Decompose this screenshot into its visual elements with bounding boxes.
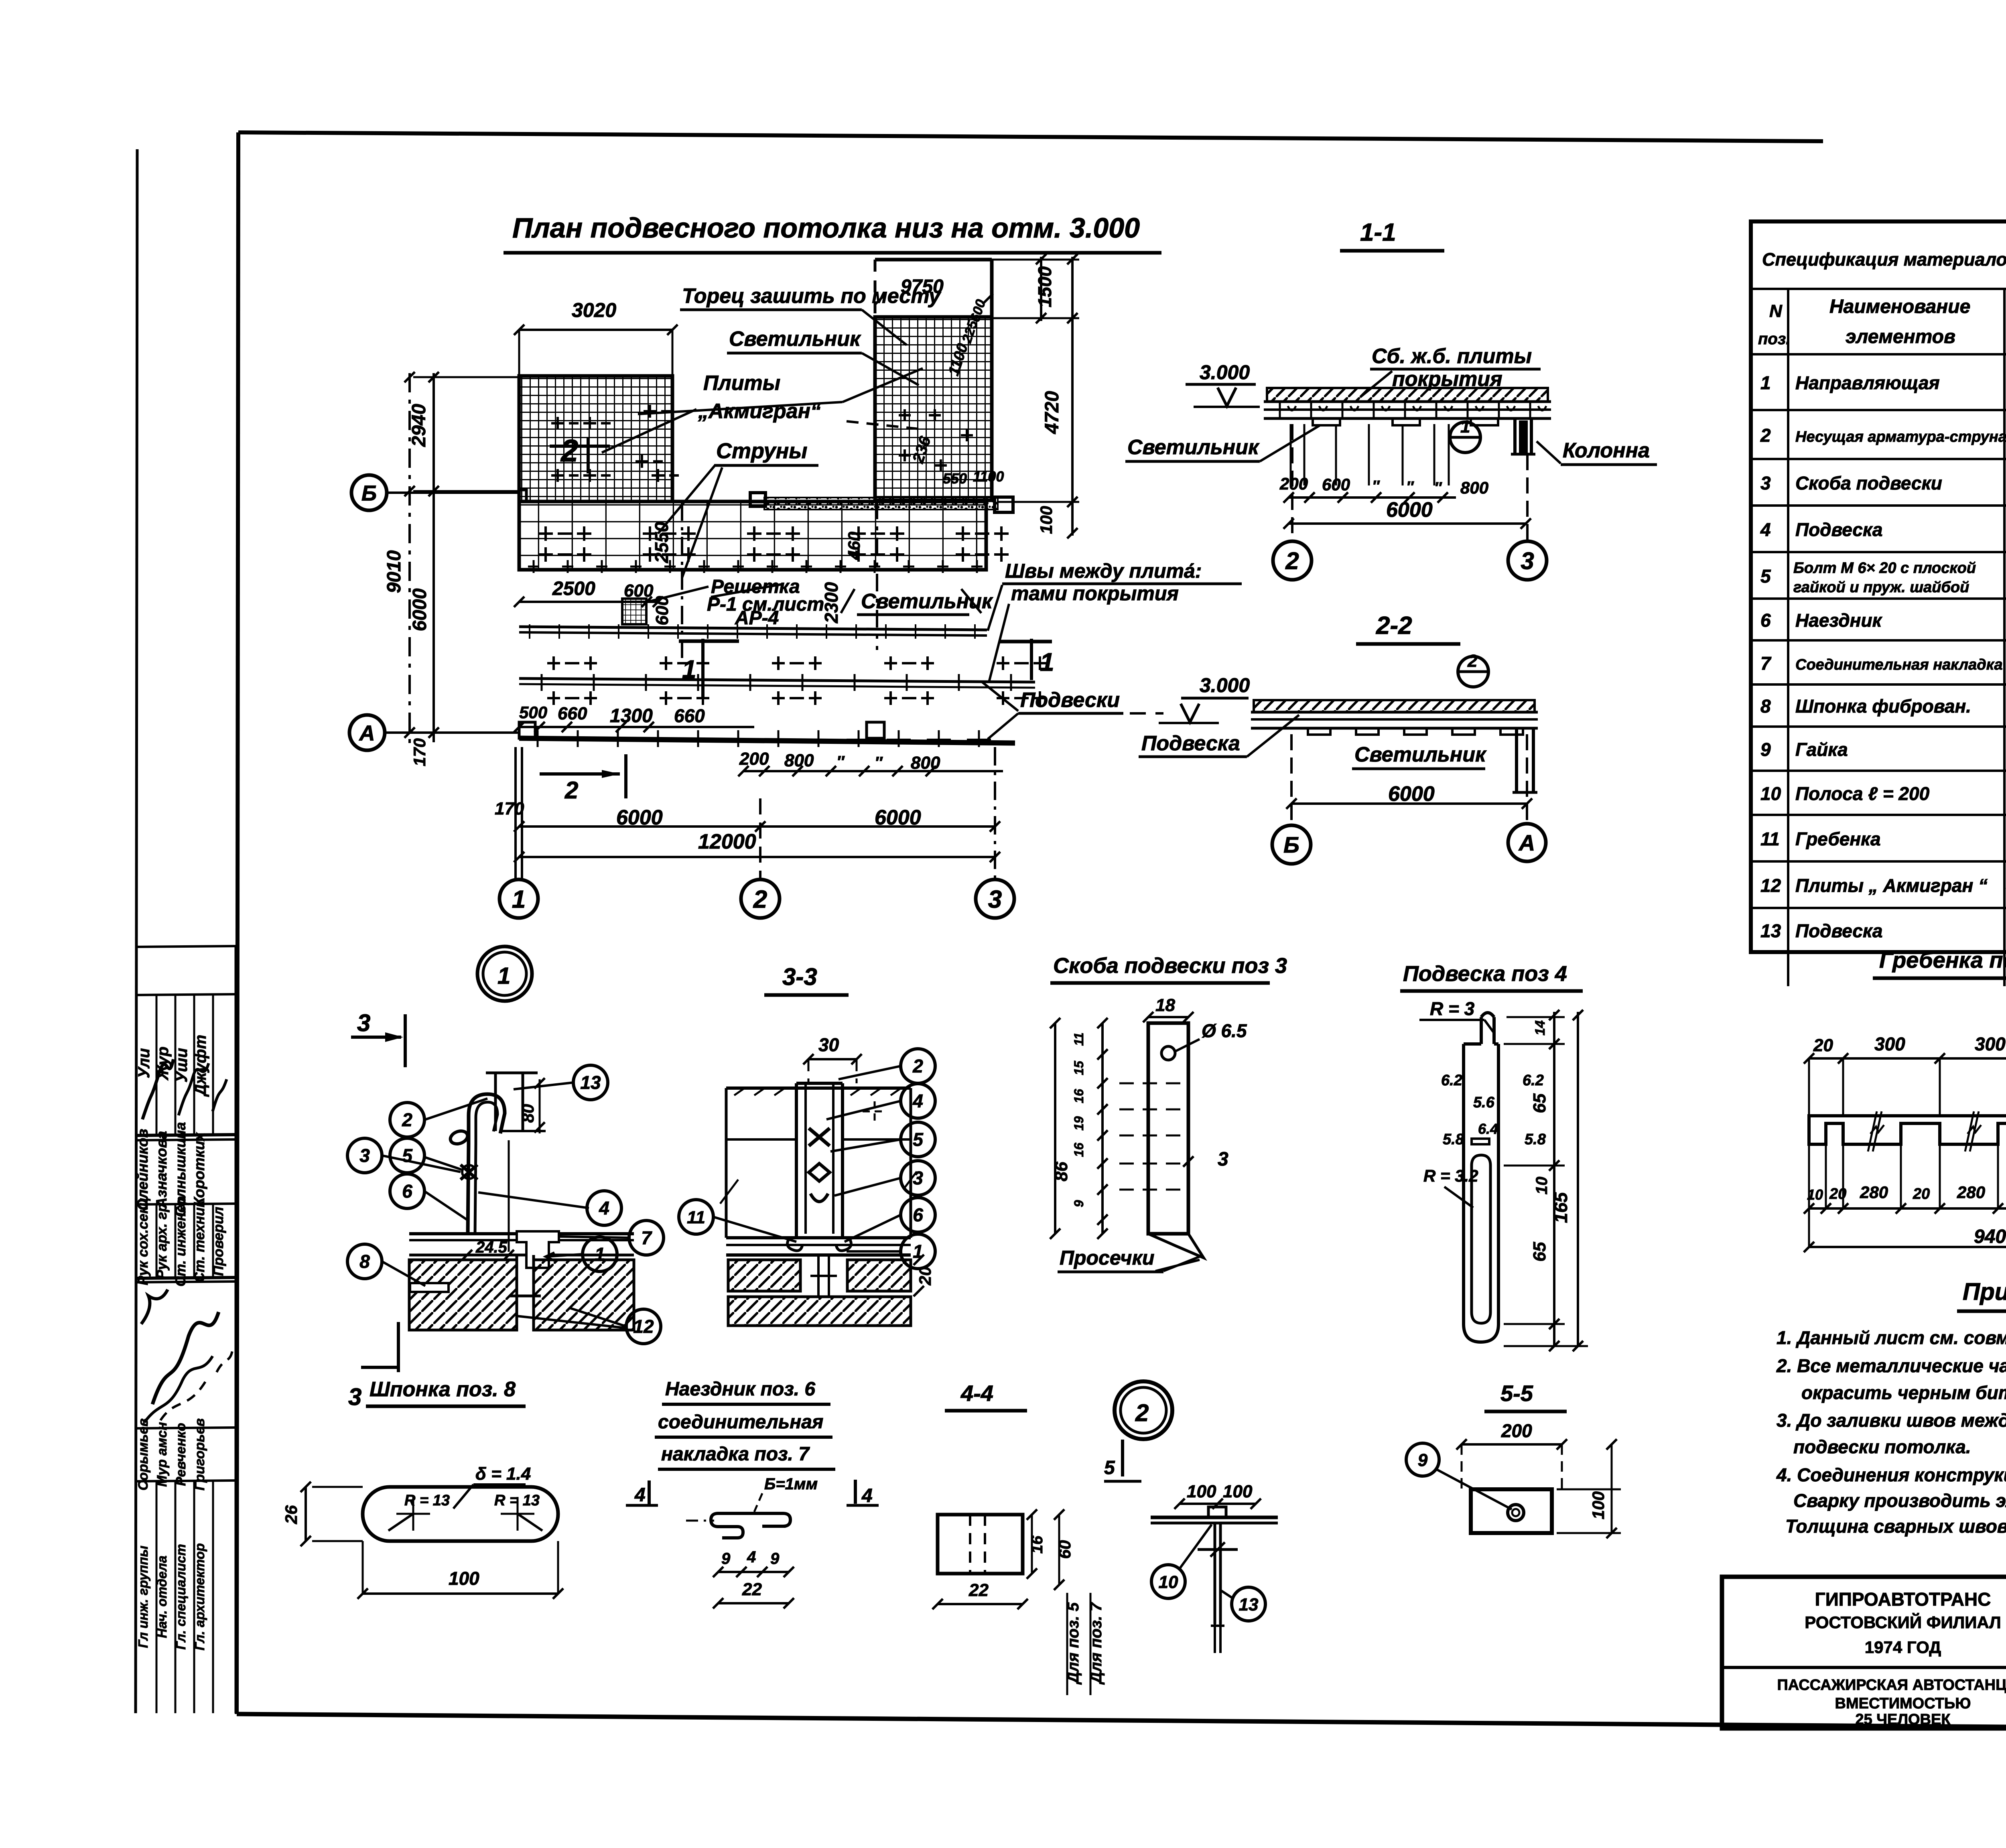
- bolt lower tip: [1214, 1624, 1216, 1653]
- svg-text:Б=1мм: Б=1мм: [764, 1475, 818, 1493]
- svg-text:Болт М 6× 20 с плоской: Болт М 6× 20 с плоской: [1793, 560, 1976, 577]
- svg-text:Скоба подвески поз 3: Скоба подвески поз 3: [1053, 954, 1287, 978]
- svg-text:19: 19: [1072, 1116, 1086, 1131]
- svg-text:9010: 9010: [384, 550, 405, 593]
- svg-text:Спецификация материалов на под: Спецификация материалов на подвесной пот…: [1762, 249, 2006, 270]
- 3-3 dashed marks right slab: [863, 1101, 887, 1121]
- svg-text:2: 2: [912, 1056, 923, 1076]
- skoba hole: [1161, 1046, 1175, 1060]
- 3-3 plates hatched: [728, 1260, 800, 1291]
- svg-text:Гребенка поз. 11: Гребенка поз. 11: [1879, 947, 2006, 973]
- svg-text:86: 86: [1052, 1162, 1071, 1181]
- svg-text:1: 1: [512, 885, 526, 913]
- svg-text:65: 65: [1530, 1093, 1549, 1113]
- svg-text:550: 550: [943, 470, 967, 487]
- svg-text:ПАССАЖИРСКАЯ АВТОСТАНЦИЯ: ПАССАЖИРСКАЯ АВТОСТАНЦИЯ: [1777, 1677, 2006, 1694]
- svg-text:1: 1: [595, 1244, 605, 1265]
- svg-text:накладка поз. 7: накладка поз. 7: [661, 1444, 810, 1465]
- svg-text:660: 660: [558, 704, 587, 723]
- axis circle 2: [741, 879, 780, 918]
- svg-text:Подвеска: Подвеска: [1141, 732, 1240, 755]
- 5-5 plate: [1471, 1489, 1552, 1533]
- svg-text:3: 3: [1760, 473, 1771, 493]
- 3-3 hatch marks in side slabs: [734, 1088, 745, 1095]
- svg-text:6.2: 6.2: [1441, 1072, 1462, 1089]
- svg-text:Ст. техник: Ст. техник: [192, 1199, 207, 1282]
- uzel1 leader lines: [424, 1099, 487, 1120]
- svg-text:Направляющая: Направляющая: [1795, 372, 1940, 393]
- 3-3 callout circles right: [901, 1049, 935, 1083]
- svg-text:6: 6: [913, 1204, 923, 1225]
- svg-text:3: 3: [1218, 1149, 1228, 1170]
- svg-text:N: N: [1769, 301, 1783, 321]
- svg-text:5: 5: [913, 1129, 924, 1150]
- svg-text:100: 100: [1589, 1491, 1608, 1519]
- svg-text:2: 2: [560, 433, 578, 468]
- svg-text:4-4: 4-4: [960, 1381, 993, 1406]
- svg-text:12000: 12000: [698, 830, 756, 853]
- svg-text:20: 20: [1813, 1036, 1833, 1055]
- svg-text:100: 100: [1187, 1482, 1216, 1501]
- strings double line: [519, 678, 1035, 682]
- svg-text:Подвески: Подвески: [1020, 688, 1120, 712]
- svg-text:Гайка: Гайка: [1795, 739, 1848, 760]
- svg-text:600: 600: [652, 596, 672, 625]
- bolt rod: [1214, 1523, 1216, 1624]
- svg-text:Проверил: Проверил: [211, 1207, 226, 1276]
- svg-text:РОСТОВСКИЙ ФИЛИАЛ: РОСТОВСКИЙ ФИЛИАЛ: [1805, 1612, 2001, 1632]
- svg-text:22: 22: [968, 1580, 989, 1600]
- svg-text:R = 3.2: R = 3.2: [1423, 1166, 1478, 1185]
- svg-text:Соединительная накладка: Соединительная накладка: [1795, 656, 2003, 673]
- svg-text:10: 10: [1760, 783, 1781, 804]
- 4-4 plate: [938, 1515, 1023, 1574]
- svg-text:1: 1: [497, 963, 510, 989]
- svg-text:13: 13: [1760, 920, 1781, 941]
- small stub on bottom line: [519, 722, 535, 738]
- svg-text:20: 20: [1829, 1186, 1846, 1202]
- uzel1 bolt: [461, 1165, 477, 1180]
- svg-text:14: 14: [1533, 1020, 1548, 1036]
- spec table frame: [1751, 221, 2006, 952]
- svg-text:Ø 6.5: Ø 6.5: [1202, 1020, 1247, 1041]
- svg-text:13: 13: [1239, 1595, 1259, 1614]
- section 5 mark left: [1121, 1440, 1124, 1476]
- svg-text:Плиты „ Акмигран “: Плиты „ Акмигран “: [1795, 875, 1988, 896]
- svg-text:Шпонка фиброван.: Шпонка фиброван.: [1795, 696, 1971, 717]
- svg-text:R = 13: R = 13: [494, 1492, 540, 1509]
- 3-3 circle 11 left: [679, 1200, 713, 1234]
- uzel1 callout circles: [390, 1103, 424, 1137]
- svg-text:3-3: 3-3: [782, 963, 817, 990]
- svg-text:3: 3: [913, 1168, 923, 1188]
- svg-text:2. Все металлические части: 2. Все металлические части креплений под…: [1776, 1355, 2006, 1376]
- svg-text:6000: 6000: [1386, 498, 1433, 522]
- svg-text:Светильник: Светильник: [861, 590, 993, 613]
- svg-text:2300: 2300: [821, 582, 842, 623]
- plate block 2 (fine grid tall): [875, 317, 992, 500]
- svg-text:6: 6: [402, 1181, 412, 1202]
- svg-text:поз.: поз.: [1758, 330, 1790, 348]
- skoba plate: [1148, 1023, 1188, 1234]
- svg-text:1: 1: [1760, 372, 1771, 393]
- svg-text:Азначкова: Азначкова: [153, 1131, 170, 1208]
- section mark 2 bottom: [540, 772, 620, 776]
- column section 1-1: [1513, 418, 1517, 454]
- axis circle A left: [349, 715, 385, 750]
- svg-text:4: 4: [747, 1548, 756, 1566]
- node circle 1 on section 1-1: [1450, 422, 1480, 453]
- svg-text:4: 4: [912, 1091, 923, 1111]
- band bottom line: [519, 568, 986, 571]
- svg-text:″: ″: [1372, 478, 1380, 495]
- string tick marks on line: [541, 674, 543, 691]
- 3-3 ceiling lines: [726, 1236, 911, 1239]
- svg-text:4: 4: [634, 1484, 646, 1506]
- svg-text:3: 3: [359, 1145, 370, 1166]
- svg-text:1-1: 1-1: [1360, 219, 1396, 246]
- svg-text:25 ЧЕЛОВЕК: 25 ЧЕЛОВЕК: [1855, 1711, 1951, 1728]
- signature strip box: [235, 946, 238, 1713]
- svg-text:Гл инж. группы: Гл инж. группы: [136, 1545, 150, 1648]
- axis circle 1: [499, 879, 538, 918]
- 5-5 bolt circle: [1508, 1505, 1524, 1521]
- hanging strings section 1-1: [1290, 424, 1292, 485]
- svg-text:16: 16: [1072, 1089, 1086, 1103]
- svg-text:15: 15: [1072, 1060, 1086, 1075]
- svg-text:6.2: 6.2: [1523, 1072, 1544, 1089]
- svg-text:11: 11: [1760, 829, 1780, 849]
- left trim line: [136, 149, 137, 1713]
- skoba dashed lines: [1119, 1082, 1186, 1084]
- svg-text:800: 800: [911, 753, 940, 773]
- svg-text:3: 3: [988, 885, 1002, 913]
- svg-text:Шпонка поз. 8: Шпонка поз. 8: [370, 1378, 516, 1401]
- svg-text:6000: 6000: [409, 588, 430, 631]
- s-clip axis dashes: [686, 1520, 714, 1522]
- axis drop lines to circles: [514, 747, 517, 879]
- svg-text:200: 200: [739, 749, 769, 769]
- svg-text:2940: 2940: [408, 404, 430, 447]
- 3-3 t profile between plates: [817, 1255, 820, 1297]
- svg-text:3. До заливки швов между п: 3. До заливки швов между плитами перекры…: [1777, 1410, 2006, 1431]
- svg-text:20: 20: [1913, 1186, 1930, 1202]
- svg-text:Сварку производить электрода: Сварку производить электродами Э 42 (Гос…: [1793, 1490, 2006, 1511]
- svg-text:200: 200: [1279, 474, 1308, 493]
- uzel1 top bracket rect: [486, 1072, 538, 1074]
- svg-text:300: 300: [1874, 1034, 1905, 1054]
- svg-text:3: 3: [357, 1009, 370, 1036]
- circle 10 callout: [1151, 1565, 1185, 1598]
- svg-text:3: 3: [1521, 548, 1534, 575]
- svg-text:170: 170: [495, 799, 524, 818]
- svg-text:Просечки: Просечки: [1060, 1247, 1154, 1269]
- svg-text:2: 2: [1760, 425, 1771, 446]
- grebenka lower extension lines: [1808, 1144, 1810, 1208]
- svg-text:2: 2: [1135, 1399, 1149, 1426]
- svg-text:12: 12: [633, 1316, 654, 1337]
- svg-text:4. Соединения конструкций: 4. Соединения конструкций подвесного пот…: [1776, 1464, 2006, 1485]
- svg-text:2: 2: [1285, 548, 1299, 575]
- svg-text:Сорымьев: Сорымьев: [136, 1418, 151, 1491]
- svg-text:элементов: элементов: [1846, 326, 1955, 347]
- svg-text:ВМЕСТИМОСТЬЮ: ВМЕСТИМОСТЬЮ: [1835, 1695, 1971, 1712]
- svg-text:Ст. инженер: Ст. инженер: [173, 1196, 189, 1286]
- plus ticks row on bottom line: [537, 730, 539, 747]
- svg-text:100: 100: [449, 1568, 479, 1589]
- svg-text:Подвеска: Подвеска: [1795, 519, 1882, 540]
- svg-text:Полоса ℓ = 200: Полоса ℓ = 200: [1795, 783, 1930, 804]
- svg-text:800: 800: [1460, 478, 1488, 497]
- svg-text:Григорьев: Григорьев: [192, 1418, 207, 1491]
- svg-text:5: 5: [1104, 1457, 1115, 1478]
- svg-text:11: 11: [1072, 1032, 1086, 1046]
- svg-text:11: 11: [687, 1208, 705, 1227]
- svg-text:26: 26: [282, 1505, 300, 1524]
- uzel1 bottom leader to 12: [517, 1316, 626, 1328]
- svg-text:280: 280: [1860, 1183, 1888, 1202]
- svg-text:5.6: 5.6: [1473, 1094, 1495, 1111]
- podveska body: [1481, 1013, 1494, 1017]
- svg-text:А: А: [359, 721, 375, 745]
- svg-text:гайкой и пруж. шайбой: гайкой и пруж. шайбой: [1793, 579, 1969, 596]
- axis circle B left: [351, 475, 387, 510]
- svg-text:окрасить черным битумным ла: окрасить черным битумным лаком Ч-2 (Гост…: [1801, 1382, 2006, 1403]
- svg-text:13: 13: [580, 1072, 601, 1093]
- column stub section 2-2: [1515, 728, 1518, 792]
- svg-text:5: 5: [1760, 566, 1771, 587]
- svg-text:План подвесного потолка ни: План подвесного потолка низ на отм. 3.00…: [512, 212, 1140, 244]
- uzel1 ceiling lines: [409, 1232, 634, 1235]
- svg-text:100: 100: [1037, 506, 1056, 534]
- svg-text:Нач. отдела: Нач. отдела: [154, 1556, 169, 1638]
- svg-text:9: 9: [770, 1550, 780, 1568]
- uzel1 t-profile in gap: [516, 1255, 518, 1296]
- svg-text:1: 1: [1460, 417, 1470, 437]
- beam section 1-1: [1267, 388, 1548, 402]
- section mark 1 center: [679, 640, 739, 643]
- svg-text:1974 ГОД: 1974 ГОД: [1865, 1638, 1941, 1657]
- uzel1 oval link: [449, 1129, 469, 1146]
- svg-text:″: ″: [1434, 479, 1442, 496]
- svg-text:Коротких: Коротких: [191, 1132, 207, 1206]
- svg-text:2-2: 2-2: [1376, 612, 1412, 640]
- svg-text:6: 6: [1760, 610, 1771, 631]
- grate square: [622, 599, 646, 624]
- svg-text:АР-4: АР-4: [735, 607, 779, 629]
- plus marks in block 1: [551, 417, 564, 430]
- joint speckle strip: [764, 498, 998, 510]
- svg-text:Наименование: Наименование: [1829, 296, 1970, 317]
- svg-text:940: 940: [1974, 1226, 2006, 1247]
- svg-text:Сб. ж.б. плиты: Сб. ж.б. плиты: [1372, 345, 1532, 368]
- svg-text:Примечания: Примечания: [1963, 1278, 2006, 1305]
- s-clip profile: [711, 1513, 790, 1538]
- svg-text:1. Данный лист см. совместн: 1. Данный лист см. совместно с листом АР…: [1777, 1327, 2006, 1348]
- svg-text:„Акмигран“: „Акмигран“: [698, 400, 821, 423]
- plus marks in block 2: [899, 409, 911, 421]
- svg-text:6.4: 6.4: [1478, 1121, 1498, 1137]
- uzel 1 big double circle: [477, 946, 532, 1001]
- svg-text:Струны: Струны: [716, 439, 807, 463]
- svg-text:200: 200: [1501, 1420, 1532, 1441]
- signature scribbles upper block: [142, 1059, 173, 1119]
- svg-text:R = 3: R = 3: [1430, 998, 1475, 1019]
- svg-text:δ = 1.4: δ = 1.4: [475, 1464, 531, 1484]
- svg-text:5.8: 5.8: [1443, 1131, 1464, 1148]
- svg-text:660: 660: [674, 705, 705, 726]
- svg-text:Торец зашить по месту: Торец зашить по месту: [682, 284, 942, 308]
- svg-text:Светильник: Светильник: [1127, 436, 1260, 459]
- circle 13 callout: [1232, 1587, 1265, 1621]
- svg-text:Ревченко: Ревченко: [173, 1423, 189, 1486]
- svg-text:6000: 6000: [1388, 782, 1435, 806]
- svg-text:2: 2: [402, 1109, 412, 1130]
- svg-text:Рук арх. гр: Рук арх. гр: [154, 1203, 170, 1279]
- svg-text:7: 7: [641, 1227, 652, 1248]
- svg-text:Ули: Ули: [135, 1048, 153, 1078]
- uzel1 plates hatched: [409, 1260, 517, 1330]
- svg-text:R = 13: R = 13: [404, 1492, 450, 1509]
- 5-5 circle 9 callout: [1406, 1443, 1439, 1476]
- uzel1 center dashline: [508, 1140, 510, 1252]
- plus-dash rows around strings line: [547, 656, 560, 670]
- skoba bottom tab: [1148, 1234, 1204, 1258]
- svg-text:9: 9: [1418, 1450, 1428, 1470]
- svg-text:5-5: 5-5: [1500, 1381, 1533, 1406]
- svg-text:16: 16: [1072, 1143, 1086, 1157]
- svg-text:Швы между плита́:: Швы между плита́:: [1005, 560, 1202, 582]
- ceiling edge double line: [519, 627, 987, 630]
- bolt washer: [1198, 1548, 1238, 1551]
- axis circles section 2-2: [1290, 734, 1293, 824]
- skoba left dim chain: [1101, 1023, 1104, 1234]
- table grid lines: [1751, 288, 2006, 290]
- coarse ceiling band: [519, 502, 986, 570]
- svg-text:1: 1: [913, 1241, 923, 1262]
- svg-text:22: 22: [742, 1580, 762, 1599]
- shponka center marks: [396, 1497, 430, 1531]
- svg-text:4720: 4720: [1042, 391, 1063, 434]
- section 4 marks: [648, 1480, 651, 1505]
- svg-text:Колонна: Колонна: [1563, 439, 1650, 462]
- grebenka comb profile: [1809, 1116, 2006, 1144]
- section mark 1 right: [999, 640, 1052, 644]
- svg-text:800: 800: [784, 751, 814, 770]
- svg-text:2: 2: [564, 777, 578, 804]
- svg-text:Наездник поз. 6: Наездник поз. 6: [665, 1379, 815, 1400]
- uzel 2 double circle: [1115, 1381, 1172, 1439]
- svg-text:280: 280: [1957, 1183, 1985, 1202]
- svg-text:100: 100: [1223, 1482, 1253, 1501]
- svg-text:Светильник: Светильник: [1354, 743, 1487, 766]
- section 3 marker bottom: [397, 1322, 400, 1372]
- uzel1 hook: [469, 1094, 505, 1143]
- axis circles section 1-1: [1291, 424, 1293, 540]
- left dimension chain of plan: [408, 373, 411, 750]
- uzel1 t-runner section: [517, 1231, 559, 1268]
- 3-3 top slab lines: [726, 1086, 911, 1090]
- svg-text:600: 600: [1322, 475, 1350, 494]
- svg-text:60: 60: [1055, 1540, 1074, 1559]
- left notch: [519, 490, 526, 502]
- svg-text:тами покрытия: тами покрытия: [1011, 582, 1179, 605]
- plan bottom thick line: [519, 738, 1015, 743]
- svg-text:Подвеска: Подвеска: [1795, 920, 1882, 941]
- svg-text:1500: 1500: [1034, 266, 1055, 307]
- sheet border frame: [238, 132, 1823, 141]
- svg-text:4: 4: [1760, 519, 1771, 540]
- shponka slot body: [363, 1487, 558, 1541]
- dashed plus rows mid band: [538, 526, 553, 541]
- 3-3 break marks: [720, 1180, 738, 1204]
- svg-text:1: 1: [1040, 648, 1054, 676]
- svg-text:Уши: Уши: [173, 1048, 191, 1082]
- svg-text:Б: Б: [361, 481, 377, 505]
- 3-3 bolt cross: [809, 1128, 830, 1146]
- bolt assembly plate: [1151, 1516, 1278, 1519]
- svg-text:Наездник: Наездник: [1795, 610, 1883, 631]
- svg-text:4: 4: [599, 1198, 609, 1218]
- plus tick row on band bottom edge: [528, 560, 539, 573]
- svg-text:1300: 1300: [610, 705, 653, 727]
- svg-text:2500: 2500: [552, 578, 595, 599]
- svg-text:10: 10: [1159, 1572, 1178, 1592]
- grebenka break marks: [1868, 1111, 1882, 1151]
- svg-text:9: 9: [721, 1550, 731, 1568]
- svg-text:ГИПРОАВТОТРАНС: ГИПРОАВТОТРАНС: [1815, 1589, 1991, 1610]
- svg-text:А: А: [1518, 830, 1535, 855]
- svg-text:80: 80: [518, 1104, 537, 1123]
- svg-text:9: 9: [1760, 739, 1771, 760]
- svg-text:подвески потолка.: подвески потолка.: [1793, 1436, 1971, 1457]
- stub left of speckle strip: [750, 493, 765, 506]
- svg-text:10: 10: [1533, 1177, 1551, 1195]
- svg-text:2: 2: [753, 885, 767, 913]
- plate block 1 (fine grid): [519, 376, 672, 502]
- svg-text:2: 2: [1467, 651, 1478, 671]
- svg-text:460: 460: [845, 532, 863, 560]
- axis circle 3: [976, 879, 1014, 918]
- svg-text:9: 9: [1072, 1200, 1086, 1207]
- 3-3 leaders: [839, 1066, 901, 1079]
- svg-text:″: ″: [875, 754, 883, 772]
- svg-text:170: 170: [410, 738, 429, 766]
- svg-text:Плиты: Плиты: [703, 372, 780, 395]
- svg-text:3.000: 3.000: [1200, 361, 1250, 384]
- svg-text:8: 8: [1760, 696, 1771, 717]
- svg-text:Мур амсн: Мур амсн: [154, 1422, 170, 1487]
- podveska right dim chain: [1553, 1012, 1555, 1346]
- svg-text:Несущая арматура-струна: Несущая арматура-струна: [1795, 428, 2006, 445]
- svg-text:Толщина сварных швов h= 6мм: Толщина сварных швов h= 6мм: [1785, 1516, 2006, 1537]
- section 3 marker top: [351, 1036, 401, 1039]
- svg-text:24.5: 24.5: [475, 1239, 508, 1256]
- svg-text:Б: Б: [1283, 832, 1299, 857]
- right dimension chain of plan: [1071, 257, 1074, 536]
- svg-text:Гл. специалист: Гл. специалист: [173, 1544, 188, 1649]
- svg-text:65: 65: [1530, 1242, 1549, 1261]
- svg-text:3: 3: [348, 1383, 361, 1410]
- svg-text:3020: 3020: [572, 299, 616, 321]
- uzel1 vertical strap: [468, 1143, 469, 1234]
- svg-text:165: 165: [1550, 1192, 1571, 1223]
- svg-text:Гребенка: Гребенка: [1795, 829, 1881, 849]
- svg-text:30: 30: [818, 1034, 839, 1055]
- svg-text:5.8: 5.8: [1525, 1131, 1546, 1148]
- svg-text:1: 1: [682, 655, 696, 684]
- svg-text:Гл. архитектор: Гл. архитектор: [192, 1543, 207, 1650]
